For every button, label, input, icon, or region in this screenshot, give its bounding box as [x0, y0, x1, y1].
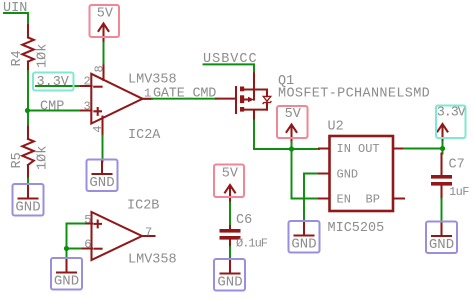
junction at 3.3V node — [440, 146, 445, 151]
wire junction up to 5V arrow — [291, 142, 293, 149]
wire USBVCC net — [204, 64, 255, 73]
svg-text:3: 3 — [84, 100, 91, 114]
svg-text:5V: 5V — [285, 107, 302, 122]
annotation box cyan 3.3V supply — [436, 106, 466, 139]
annotation box purple GND IC2A — [87, 160, 118, 192]
svg-text:2: 2 — [84, 75, 91, 89]
wire junction up to 3.3V arrow — [442, 142, 444, 149]
svg-text:GND: GND — [429, 237, 454, 253]
svg-text:GND: GND — [15, 200, 40, 216]
junction IC2B inputs — [64, 246, 69, 251]
op-amp IC2A minus input — [94, 86, 101, 88]
resistor R5 pins — [27, 127, 29, 179]
svg-text:CMP: CMP — [40, 100, 64, 115]
svg-text:5V: 5V — [222, 167, 239, 182]
transistor Q1 gate bar — [235, 87, 237, 113]
svg-text:1Øk: 1Øk — [36, 44, 51, 68]
op-amp IC2A pin stubs — [81, 64, 152, 136]
svg-text:IC2B: IC2B — [127, 199, 159, 214]
svg-text:GND: GND — [337, 168, 359, 182]
wire R4 to junction to R5 — [27, 71, 29, 127]
svg-text:C6: C6 — [236, 213, 252, 228]
wire C6 to ground — [229, 247, 231, 262]
svg-text:GND: GND — [54, 274, 79, 290]
svg-text:1Øk: 1Øk — [36, 146, 51, 170]
regulator U2 pin stubs — [319, 149, 404, 199]
wire R5 to ground — [27, 179, 29, 187]
op-amp IC2A plus input — [94, 108, 101, 115]
svg-text:MIC5205: MIC5205 — [328, 221, 385, 236]
wire C7 to ground — [441, 199, 443, 224]
wire junction down to C7 — [442, 149, 444, 154]
wire pin4 to ground — [102, 136, 104, 162]
svg-text:Ø.1uF: Ø.1uF — [236, 237, 268, 251]
ground GND under IC2B — [54, 260, 79, 290]
capacitor C6 plates — [220, 229, 241, 233]
transistor Q1 MOSFET gate pin — [216, 98, 236, 100]
transistor Q1 channel segments — [240, 87, 244, 92]
op-amp IC2B triangle — [92, 212, 143, 260]
svg-text:U2: U2 — [328, 120, 344, 135]
wire IC2B inputs tied — [67, 224, 85, 261]
wire junction down to EN — [292, 149, 320, 199]
svg-text:BP: BP — [366, 193, 380, 207]
transistor Q1 source stub and vertical — [244, 73, 267, 99]
wire U2 GND pin to ground — [304, 174, 319, 224]
annotation box pink 5V top — [90, 5, 120, 37]
capacitor C7 pins — [440, 154, 442, 200]
transistor Q1 drain stub — [244, 110, 267, 121]
wire OUT to 3.3V junction — [404, 148, 443, 150]
op-amp IC2A triangle — [91, 74, 142, 124]
body diode of Q1 — [266, 90, 268, 110]
annotation box pink 5V mosfet — [277, 106, 308, 138]
ground GND under R5 — [15, 186, 40, 216]
svg-text:6: 6 — [84, 238, 91, 252]
svg-text:GND: GND — [217, 275, 242, 291]
ground GND under IC2A — [89, 162, 114, 192]
svg-text:OUT: OUT — [358, 142, 380, 156]
wire 3.3V net to pin 2 — [36, 85, 81, 87]
svg-text:GND: GND — [89, 175, 114, 191]
resistor R4 pins — [27, 25, 29, 71]
ground GND under C7 — [429, 224, 454, 254]
ground GND under C6 — [217, 261, 242, 291]
ground GND under U2 — [291, 223, 316, 253]
svg-text:R4: R4 — [10, 50, 25, 66]
junction at 5V node — [289, 146, 294, 151]
annotation box purple GND R5 — [13, 184, 44, 216]
svg-text:IN: IN — [337, 142, 351, 156]
svg-text:LMV358: LMV358 — [128, 253, 177, 268]
annotation box purple GND U2 — [289, 221, 320, 253]
svg-text:5V: 5V — [97, 6, 114, 21]
svg-text:GND: GND — [291, 237, 316, 253]
svg-text:3.3V: 3.3V — [437, 106, 467, 121]
wire CMP net — [28, 110, 82, 112]
supply 5V above IC2A — [97, 6, 114, 41]
annotation box purple GND IC2B — [51, 258, 82, 290]
supply 5V above C6 — [222, 167, 239, 203]
svg-text:R5: R5 — [10, 152, 25, 168]
annotation box cyan 3.3V label — [33, 73, 74, 91]
wire GATE_CMD net — [152, 98, 216, 100]
op-amp IC2B pin stubs — [81, 224, 155, 249]
svg-text:LMV358: LMV358 — [128, 73, 177, 88]
svg-text:7: 7 — [145, 226, 152, 240]
svg-text:1uF: 1uF — [449, 185, 469, 199]
regulator U2 box — [330, 136, 394, 211]
svg-text:GATE_CMD: GATE_CMD — [153, 87, 216, 102]
svg-text:C7: C7 — [449, 158, 465, 173]
supply 5V above junction — [285, 107, 302, 142]
op-amp IC2B minus input — [94, 248, 101, 250]
svg-text:EN: EN — [337, 193, 351, 207]
wire 5V to C6 — [229, 203, 231, 227]
svg-text:3.3V: 3.3V — [37, 75, 70, 90]
resistor R5 zigzag — [22, 139, 34, 165]
wire UIN net — [4, 13, 28, 25]
wire pin8 to 5V — [103, 41, 105, 64]
svg-text:4: 4 — [91, 126, 105, 133]
resistor R4 zigzag — [22, 38, 34, 62]
annotation box purple GND C7 — [426, 222, 457, 254]
op-amp IC2B plus input — [94, 221, 101, 228]
capacitor C6 pins — [229, 226, 231, 247]
capacitor C7 plates — [431, 175, 452, 179]
svg-text:MOSFET-PCHANNELSMD: MOSFET-PCHANNELSMD — [278, 87, 430, 102]
supply 3.3V — [437, 106, 467, 142]
transistor Q1 bulk arrow — [244, 98, 248, 100]
annotation box purple GND C6 — [214, 259, 245, 291]
svg-text:IC2A: IC2A — [128, 128, 161, 143]
svg-text:8: 8 — [92, 65, 106, 72]
annotation box pink 5V C6 — [214, 165, 244, 198]
wire drain to U2 IN — [254, 121, 319, 149]
svg-text:5: 5 — [84, 213, 91, 227]
junction node CMP — [25, 108, 30, 113]
svg-text:1: 1 — [144, 87, 151, 101]
